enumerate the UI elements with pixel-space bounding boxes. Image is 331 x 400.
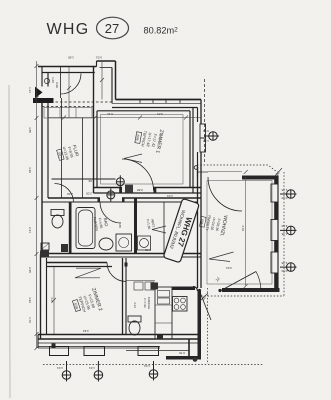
shaft with X in corridor bbox=[125, 185, 133, 193]
svg-text:4.33: 4.33 bbox=[133, 302, 137, 308]
left wall below entry to zimmer2 bbox=[41, 103, 43, 254]
wc door arc bbox=[55, 184, 74, 203]
wall zimmer2 / kitchen bbox=[122, 258, 124, 335]
svg-text:1.06: 1.06 bbox=[51, 77, 55, 83]
zimmer2 door arc bbox=[107, 263, 126, 282]
break marks zimmer2 bbox=[75, 268, 101, 278]
arrow zimmer1 bbox=[124, 154, 142, 163]
zimmer1 top wall inner1 bbox=[112, 107, 198, 109]
svg-text:80.82m2: 80.82m2 bbox=[144, 26, 179, 36]
bath door arc bbox=[100, 202, 121, 223]
kitchen top wall bbox=[172, 287, 195, 291]
svg-text:1.01: 1.01 bbox=[144, 364, 150, 368]
svg-text:1.13: 1.13 bbox=[28, 87, 32, 93]
living top wall bbox=[242, 176, 278, 180]
svg-text:1.35: 1.35 bbox=[281, 232, 287, 236]
top-left hallway wall inner bbox=[42, 72, 95, 74]
circle marker bottom 2 bbox=[94, 371, 103, 380]
svg-text:1.20: 1.20 bbox=[203, 139, 209, 143]
zimmer1 top wall window ticks bbox=[140, 100, 180, 104]
svg-text:0.96: 0.96 bbox=[55, 82, 59, 88]
svg-text:0.88: 0.88 bbox=[137, 188, 143, 192]
stub hinge dot bbox=[193, 357, 198, 362]
label bad bbox=[92, 215, 109, 232]
kitchen balcony door leaf bbox=[200, 291, 212, 320]
left wall inner upper bbox=[47, 73, 49, 87]
svg-text:2.02: 2.02 bbox=[67, 192, 73, 196]
top-left hallway wall outer right segment bbox=[97, 60, 116, 62]
step block vertical dimension line bbox=[101, 61, 103, 100]
svg-text:0.90: 0.90 bbox=[281, 196, 287, 200]
kitchen counter bbox=[155, 287, 172, 339]
svg-text:1.76: 1.76 bbox=[28, 317, 32, 323]
small electric boxes bbox=[134, 282, 143, 290]
corridor niche line bbox=[52, 178, 116, 180]
circle marker right wall 3 bbox=[287, 263, 296, 272]
left dimension chain bbox=[36, 61, 38, 348]
zimmer1 inner finish line bbox=[101, 115, 184, 185]
svg-text:WHG: WHG bbox=[47, 21, 90, 38]
dark duct bath corner bbox=[61, 244, 68, 252]
zimmer1 door arc bbox=[122, 159, 154, 191]
dryer appliance bbox=[138, 236, 151, 250]
circle marker right wall 2 bbox=[287, 226, 296, 235]
svg-text:0.90: 0.90 bbox=[281, 269, 287, 273]
kitchen east wall bbox=[198, 290, 202, 360]
zimmer1 window sill rects bbox=[200, 124, 206, 138]
hatched shaft left bbox=[40, 251, 49, 258]
kitchen dotted line east bbox=[207, 288, 209, 364]
svg-text:2.50: 2.50 bbox=[281, 224, 287, 228]
circle marker right wall 1 bbox=[287, 190, 296, 199]
label kueche rotated bbox=[143, 297, 151, 310]
washing machine bbox=[116, 234, 132, 251]
hinge circle living wall top bbox=[194, 166, 198, 170]
bath block top wall bbox=[48, 197, 100, 199]
svg-text:0.76: 0.76 bbox=[179, 351, 185, 355]
living bottom wall bbox=[222, 288, 280, 292]
circle marker bottom 3 bbox=[149, 370, 158, 379]
entry door circle mark bbox=[44, 78, 49, 83]
svg-text:4.33: 4.33 bbox=[50, 297, 54, 303]
label zimmer1 bbox=[133, 125, 164, 153]
label zimmer2 bbox=[70, 287, 103, 318]
balcony door leaf bbox=[220, 272, 256, 292]
svg-text:1.85: 1.85 bbox=[68, 56, 74, 60]
svg-text:1.01: 1.01 bbox=[167, 194, 173, 198]
svg-text:3.26: 3.26 bbox=[28, 167, 32, 173]
wardrobe boxes bbox=[44, 108, 92, 119]
step wall outer bbox=[115, 61, 117, 100]
svg-text:4.79: 4.79 bbox=[241, 225, 245, 231]
living right wall bbox=[277, 176, 279, 293]
circle marker right of zimmer1 window bbox=[209, 132, 218, 141]
kitchen sink bowls bbox=[158, 291, 170, 298]
arrow kitchen top bbox=[152, 226, 166, 233]
svg-text:7.06: 7.06 bbox=[88, 179, 94, 183]
svg-text:3.85: 3.85 bbox=[28, 127, 32, 133]
svg-text:27: 27 bbox=[105, 21, 119, 36]
top-left hallway wall outer left segment bbox=[38, 66, 97, 68]
living room inner finish line bbox=[207, 181, 272, 285]
left wall lower (zimmer2) bbox=[40, 254, 42, 339]
entrance threshold black bar bbox=[33, 98, 54, 103]
wall between flur and zimmer1 bbox=[93, 67, 95, 193]
zimmer2 top wall bbox=[46, 262, 107, 264]
svg-text:8.11: 8.11 bbox=[107, 112, 113, 116]
dotted overhang outline bbox=[197, 165, 277, 172]
corridor jamb vertical 2 bbox=[81, 118, 83, 198]
svg-text:0.75: 0.75 bbox=[145, 248, 151, 252]
scan fold line left edge bbox=[9, 85, 10, 398]
left wall outer upper bbox=[41, 67, 43, 87]
dashed ceiling lines bbox=[42, 101, 112, 103]
svg-text:1.35: 1.35 bbox=[281, 261, 287, 265]
svg-text:3.93: 3.93 bbox=[28, 297, 32, 303]
zimmer2 door jamb bbox=[125, 263, 128, 267]
svg-text:3.01: 3.01 bbox=[226, 266, 232, 270]
svg-text:1.35: 1.35 bbox=[281, 188, 287, 192]
bath sink bbox=[99, 238, 113, 250]
svg-text:1.01: 1.01 bbox=[57, 366, 63, 370]
svg-text:1.88: 1.88 bbox=[118, 222, 122, 228]
circle marker corridor bbox=[116, 178, 124, 186]
arrow living bbox=[209, 252, 234, 262]
storage dividing wall bbox=[163, 202, 165, 254]
svg-text:5.01: 5.01 bbox=[96, 56, 102, 60]
title circle around 27 bbox=[97, 17, 129, 39]
svg-text:2.65: 2.65 bbox=[28, 267, 32, 273]
wc toilet bbox=[51, 210, 64, 216]
corridor jamb vertical 1 bbox=[61, 98, 63, 198]
living windows bbox=[271, 184, 278, 202]
stove bbox=[173, 297, 188, 312]
hall vertical dimension line bbox=[68, 67, 70, 118]
circle marker bottom 1 bbox=[62, 371, 71, 380]
wall below bath block bbox=[42, 253, 201, 255]
svg-text:2.41: 2.41 bbox=[28, 227, 32, 233]
bathtub bbox=[76, 208, 95, 249]
label flur bbox=[56, 143, 80, 162]
zimmer1 bottom wall bbox=[94, 187, 123, 189]
kitchen stub bottom bbox=[188, 339, 190, 356]
kitchen lower counter line bbox=[126, 350, 189, 352]
zimmer1 top wall line2 bbox=[112, 102, 201, 104]
living main door arc bbox=[208, 177, 242, 211]
jog at zimmer1 wall bbox=[96, 61, 98, 67]
label abstellraum bbox=[146, 218, 156, 230]
entry jamb line bbox=[60, 67, 62, 99]
entrance door arc bbox=[61, 74, 82, 95]
living room vertical dim line bbox=[245, 177, 247, 286]
zimmer1 door jambs bbox=[119, 188, 122, 194]
bath door jambs bbox=[98, 198, 101, 202]
svg-text:2.00: 2.00 bbox=[86, 192, 92, 196]
svg-text:3.81: 3.81 bbox=[157, 112, 163, 116]
bottom dotted line bbox=[43, 364, 263, 366]
label wohnzimmer bbox=[198, 211, 228, 237]
bath outer walls bbox=[69, 202, 72, 254]
zimmer1 top wall inner2 bbox=[97, 110, 190, 112]
top wall inner right bbox=[100, 67, 113, 69]
zimmer1/exterior right double wall bbox=[189, 111, 191, 188]
kitchen wc toilet bbox=[128, 316, 141, 322]
dashed roof line right of zimmer1 bbox=[204, 79, 206, 164]
inner dimension line below zimmer1 top wall bbox=[48, 117, 201, 119]
zimmer2 dim line bbox=[53, 267, 55, 334]
svg-text:1.01: 1.01 bbox=[89, 366, 95, 370]
balcony door hinge dots bbox=[218, 289, 221, 292]
wall piers bbox=[50, 347, 69, 356]
svg-text:0.51: 0.51 bbox=[203, 129, 209, 133]
entrance arrow triangle bbox=[35, 87, 43, 99]
step wall inner bbox=[111, 68, 113, 104]
svg-text:F=7.96: F=7.96 bbox=[143, 298, 147, 308]
circle marker corridor 2 bbox=[107, 191, 115, 199]
zimmer1 top wall outer bbox=[116, 99, 202, 101]
svg-text:4.33: 4.33 bbox=[83, 329, 89, 333]
